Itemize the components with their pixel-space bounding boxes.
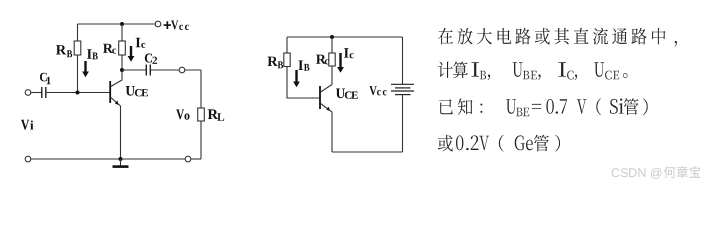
label IC (middle) — [344, 48, 354, 58]
label Vcc (middle) — [369, 86, 386, 95]
wire: middle circuit top rail — [287, 36, 403, 38]
terminal: bottom-left open circle — [25, 156, 31, 162]
label IB (middle) — [298, 61, 309, 71]
transistor Q1 emitter lead with arrow — [111, 98, 121, 160]
current arrow IB (left) — [82, 61, 89, 77]
wire: middle RC branch upper — [331, 37, 333, 53]
wire: input to C1 — [31, 92, 42, 94]
transistor Q2 base bar — [319, 86, 321, 109]
wire: RC branch lower — [121, 55, 123, 70]
label UCE (middle) — [336, 89, 358, 99]
wire: RL branch lower — [200, 121, 202, 159]
wire: C2 to output terminal — [150, 69, 179, 71]
terminal: output open circle (top) — [179, 67, 185, 73]
ground symbol — [120, 159, 122, 166]
battery Vcc plates — [391, 83, 414, 85]
text line 3: 已知： UBE = 0.7V （Si管） — [439, 98, 648, 116]
wire: middle RC branch lower — [331, 66, 333, 85]
wire: bottom rail to RL corner — [191, 158, 201, 160]
terminal: input open circle — [25, 90, 31, 96]
wire: RB branch lower — [77, 55, 79, 93]
wire: RC branch upper — [121, 24, 123, 41]
resistor RB (middle) — [284, 53, 290, 67]
transistor Q1 collector lead — [111, 70, 122, 87]
resistor RB (left) — [74, 41, 81, 55]
resistor RL — [198, 108, 205, 121]
current arrow IC (left) — [128, 46, 135, 62]
wire: battery bottom lead — [402, 95, 404, 152]
label C1 — [40, 73, 51, 85]
label C2 — [145, 54, 157, 64]
resistor RC (middle) — [329, 53, 335, 66]
wire: middle RB branch lower + base wire — [287, 67, 319, 99]
label RC (middle) — [316, 55, 329, 65]
transistor Q1 base bar — [109, 81, 111, 103]
terminal +Vcc open circle — [155, 21, 161, 27]
label RB (middle) — [268, 57, 284, 69]
label +Vcc — [171, 21, 189, 31]
wire: battery top lead — [402, 37, 404, 84]
node: emitter / bottom rail junction dot — [119, 157, 123, 161]
text line 2: 计算IB， UBE， IC， UCE 。 — [438, 62, 628, 81]
terminal: bottom-right open circle — [185, 156, 191, 162]
wire: middle RB branch upper — [286, 37, 288, 53]
wire: left circuit top rail — [78, 23, 156, 25]
label Vi — [21, 120, 34, 130]
node: collector junction dot — [120, 68, 124, 72]
node: RB / base junction dot — [76, 91, 80, 95]
label +Vcc: plus sign — [164, 21, 171, 29]
label IB (left) — [87, 49, 98, 59]
current arrow IC (middle) — [337, 53, 344, 73]
resistor RC (left) — [119, 41, 126, 55]
wire: bottom rail — [31, 158, 185, 160]
label RB (left) — [56, 45, 72, 57]
current arrow IB (middle) — [293, 70, 300, 87]
wire: collector to C2 — [122, 69, 146, 71]
capacitor C2 plates — [145, 65, 147, 76]
label RC (left) — [103, 44, 116, 54]
wire: base wire C1 to transistor — [46, 92, 110, 94]
wire: RL branch upper — [200, 70, 202, 108]
transistor Q2 collector lead — [321, 85, 332, 93]
text line 1: 在放大电路或其直流通路中， — [438, 28, 677, 47]
watermark CSDN @何章宝 — [612, 166, 701, 179]
wire: output terminal to RL branch — [185, 69, 201, 71]
label Vo — [176, 110, 189, 120]
label RL — [208, 109, 225, 120]
label IC (left) — [136, 38, 146, 48]
transistor Q2 emitter lead with arrow — [321, 104, 332, 153]
capacitor C1 plates — [41, 87, 43, 98]
node: top rail / RC junction dot — [120, 22, 124, 26]
node: middle top rail junction dot — [330, 35, 334, 39]
wire: middle bottom rail — [332, 151, 403, 153]
text line 4: 或0.2V（Ge管） — [438, 135, 560, 152]
wire: RB branch upper — [77, 24, 79, 41]
label UCE (left) — [126, 86, 148, 96]
